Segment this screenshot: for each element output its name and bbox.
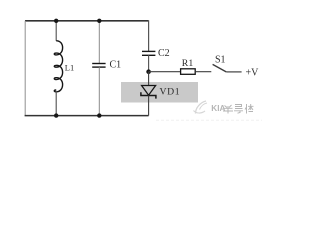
highlight box around VD1: [121, 82, 198, 103]
svg-text:C2: C2: [158, 48, 170, 59]
svg-text:L1: L1: [65, 63, 74, 73]
svg-text:+V: +V: [246, 67, 260, 78]
svg-text:S1: S1: [215, 55, 226, 66]
node L1 top junction: [54, 19, 58, 23]
watermark logo swoosh: [194, 101, 208, 114]
svg-text:VD1: VD1: [160, 86, 181, 97]
wire C2 bottom lead: [148, 55, 150, 71]
diode VD1 (zener): [141, 86, 156, 99]
wire L1 bottom lead: [55, 91, 57, 116]
watermark glyph 体: [245, 104, 254, 114]
wire junction to R1: [149, 71, 181, 73]
resistor R1: [181, 69, 196, 75]
wire bottom horizontal: [25, 115, 149, 117]
wire C1 top lead: [98, 21, 100, 64]
node L1 bottom junction: [54, 113, 58, 117]
watermark glyph 半: [223, 105, 233, 114]
wire left vertical: [24, 21, 26, 116]
watermark baseline speckle: [156, 119, 262, 121]
node C1 top junction: [97, 19, 101, 23]
wire L1 top lead: [55, 21, 57, 41]
inductor L1: [54, 41, 62, 92]
capacitor C2: [142, 51, 155, 55]
svg-text:R1: R1: [182, 58, 194, 69]
wire top horizontal: [25, 20, 149, 22]
svg-text:C1: C1: [110, 60, 122, 71]
wire C2 top lead (corner from top wire): [148, 20, 150, 51]
wire C1 bottom lead: [98, 67, 100, 116]
node C1 bottom junction: [97, 113, 101, 117]
wire VD1 anode lead: [148, 72, 150, 86]
wire VD1 cathode lead: [148, 96, 150, 116]
switch S1 blade: [213, 64, 227, 72]
node C2/R1/VD1 junction: [146, 69, 151, 74]
capacitor C1: [92, 64, 105, 68]
svg-text:KIA: KIA: [211, 104, 225, 113]
watermark glyph 导: [234, 105, 243, 114]
wire switch to +V: [226, 71, 241, 73]
wire R1 to switch: [195, 71, 211, 73]
